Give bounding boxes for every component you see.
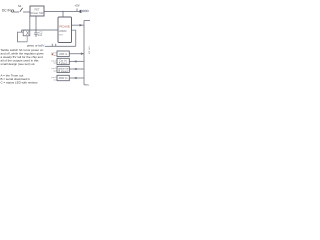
svg-text:-08M2: -08M2 — [59, 29, 67, 33]
svg-text:FET: FET — [34, 8, 39, 12]
svg-text:USB x1: USB x1 — [59, 53, 68, 56]
svg-text:out: out — [53, 79, 56, 82]
svg-text:2u2: 2u2 — [38, 34, 43, 37]
svg-text:5 green: 5 green — [59, 62, 68, 65]
svg-text:0V: 0V — [86, 84, 89, 87]
svg-text:PICAXE: PICAXE — [60, 25, 70, 29]
svg-text:B speed: B speed — [59, 70, 69, 73]
svg-text:out: out — [53, 54, 56, 57]
svg-text:+5V out: +5V out — [88, 46, 90, 55]
svg-text:Power SW: Power SW — [31, 11, 44, 15]
svg-text:piezo or bz: piezo or bz — [27, 44, 42, 48]
svg-text:ABW 11: ABW 11 — [59, 77, 69, 80]
svg-text:small design (see text) ok.: small design (see text) ok. — [1, 62, 36, 66]
svg-text:out: out — [53, 69, 56, 72]
svg-text:out: out — [53, 62, 56, 65]
svg-text:+5V: +5V — [75, 4, 80, 8]
svg-text:S1: S1 — [18, 4, 22, 8]
svg-text:DC IN: DC IN — [2, 8, 11, 12]
svg-text:C = status LED with resistor: C = status LED with resistor — [1, 81, 38, 85]
svg-text:SER: SER — [59, 34, 64, 36]
